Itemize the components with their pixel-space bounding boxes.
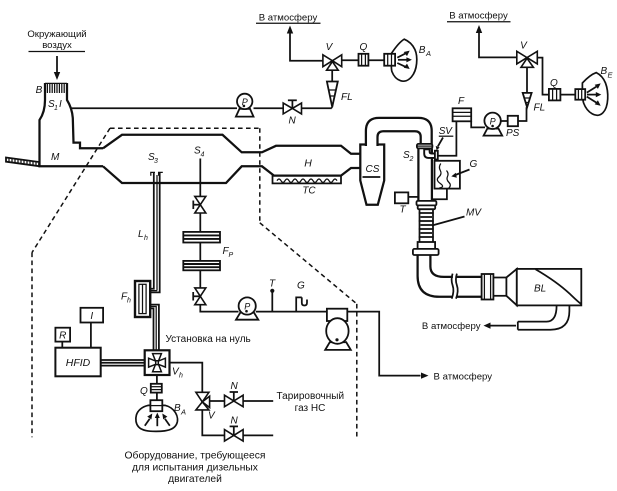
svg-text:BL: BL	[534, 284, 546, 295]
sampling probe S4	[194, 146, 205, 197]
svg-text:h: h	[179, 373, 183, 380]
pump P (sample)	[484, 113, 503, 136]
svg-text:FL: FL	[534, 103, 546, 114]
pressure switch PS	[501, 116, 520, 139]
svg-text:B: B	[601, 66, 608, 77]
line to pump P	[200, 305, 238, 312]
vent line to atmosphere (right)	[447, 11, 517, 58]
U-bend pipe CS to main pipe	[366, 118, 432, 146]
elbow to blower BL	[418, 255, 482, 297]
svg-text:G: G	[470, 159, 478, 170]
svg-text:Окружающий: Окружающий	[27, 29, 86, 40]
svg-text:В атмосферу: В атмосферу	[259, 13, 318, 24]
pump P (background air)	[236, 94, 254, 117]
3-way valve V (background air vent)	[323, 42, 342, 82]
zero line Vh to valve V	[170, 363, 203, 393]
sample line SV to filter F	[438, 121, 457, 156]
3-way valve V (calibration)	[196, 392, 216, 421]
temperature sensor T (particulate line)	[269, 279, 276, 312]
svg-text:N: N	[289, 116, 297, 127]
svg-text:MV: MV	[466, 208, 482, 219]
svg-text:В атмосферу: В атмосферу	[434, 372, 493, 383]
funnel B with hatched inlet	[36, 83, 103, 166]
pipe break symbol	[452, 274, 458, 299]
coupling before BL	[482, 274, 494, 300]
svg-text:B: B	[419, 45, 426, 56]
svg-text:G: G	[297, 281, 305, 292]
svg-text:L: L	[138, 229, 144, 240]
heated triple line HFID to Vh	[101, 360, 145, 366]
flow meter Q (HFID burner air)	[140, 375, 162, 397]
svg-text:N: N	[231, 381, 239, 392]
svg-text:R: R	[59, 331, 66, 342]
line F to pump P	[471, 121, 485, 127]
needle valve N (cal gas 2)	[202, 410, 273, 441]
line V to flow meter Q (right)	[537, 58, 549, 95]
flange S2 on main pipe	[403, 144, 432, 163]
flange above elbow	[413, 249, 439, 255]
svg-text:В атмосферу: В атмосферу	[422, 321, 481, 332]
temperature sensor T (on pipe)	[395, 192, 419, 215]
rotameter FL (sample)	[518, 93, 545, 121]
flexible coupling MV	[418, 208, 483, 249]
label: Окружающий воздух	[27, 29, 86, 52]
heater TC under section H	[273, 176, 342, 197]
heated line Lh	[138, 173, 160, 293]
svg-text:Оборудование, требующееся: Оборудование, требующееся	[125, 450, 266, 462]
svg-text:газ НС: газ НС	[295, 403, 326, 414]
blower BA (burner air) pointing down	[136, 393, 186, 432]
svg-text:P: P	[490, 116, 496, 126]
svg-text:A: A	[425, 49, 431, 58]
rotameter FL (background air)	[327, 82, 353, 109]
svg-text:Q: Q	[360, 42, 368, 53]
svg-text:воздух: воздух	[42, 40, 72, 51]
svg-text:FL: FL	[341, 92, 353, 103]
recorder R	[55, 328, 70, 348]
vent line to atmosphere (middle)	[256, 13, 323, 61]
svg-text:двигателей: двигателей	[168, 474, 222, 485]
vent line to atmosphere (bottom)	[347, 312, 492, 383]
svg-text:B: B	[36, 85, 43, 96]
svg-text:Q: Q	[140, 386, 148, 397]
svg-text:3: 3	[154, 158, 158, 165]
filter FP 2	[183, 246, 233, 270]
flange below S2	[417, 201, 437, 209]
svg-text:F: F	[458, 96, 465, 107]
filter FP 1	[183, 232, 220, 243]
caption: equipment for diesel testing	[125, 450, 266, 486]
sampling probe S3	[148, 152, 163, 176]
svg-text:T: T	[400, 205, 407, 216]
heated filter Fh	[121, 281, 150, 317]
sampling fitting SV	[424, 126, 453, 160]
svg-text:1: 1	[54, 105, 58, 112]
svg-text:Установка на нуль: Установка на нуль	[166, 334, 251, 345]
svg-text:для испытания дизельных: для испытания дизельных	[132, 463, 259, 474]
arrow BL outlet to atmosphere	[422, 321, 516, 332]
heated line Fh to Vh	[150, 305, 159, 351]
main exhaust pipe	[418, 148, 432, 201]
svg-text:P: P	[242, 97, 248, 107]
svg-text:h: h	[127, 298, 131, 305]
flame detector G (on pipe)	[432, 159, 478, 199]
svg-text:h: h	[144, 235, 148, 242]
svg-text:M: M	[51, 152, 60, 163]
svg-text:Q: Q	[550, 78, 558, 89]
blower BA (background air)	[384, 39, 431, 81]
filter F	[453, 96, 472, 121]
cyclone separator CS	[360, 145, 384, 205]
3-way valve V (sample vent)	[517, 41, 538, 93]
flow meter Q (background air)	[342, 42, 385, 66]
svg-text:T: T	[269, 279, 276, 290]
HFID analyzer	[55, 348, 100, 377]
svg-text:2: 2	[409, 156, 414, 163]
arrow: ambient air into funnel B	[54, 56, 60, 80]
gauge G (particulate line)	[296, 281, 307, 312]
svg-text:P: P	[244, 302, 250, 312]
BL outlet pipe	[518, 306, 570, 330]
pipe funnel B to pump P (background air)	[71, 107, 237, 109]
gas meter pump (particulate line)	[325, 309, 351, 350]
svg-text:I: I	[59, 99, 62, 110]
blower BE	[575, 66, 613, 115]
svg-text:CS: CS	[366, 164, 380, 175]
svg-text:В атмосферу: В атмосферу	[449, 11, 508, 22]
inlet cone of BL	[506, 269, 516, 305]
indicator I	[81, 308, 104, 348]
pipe coupling to cone	[493, 278, 506, 296]
svg-text:PS: PS	[506, 128, 520, 139]
svg-text:TC: TC	[302, 186, 316, 197]
heated valve Vh	[145, 350, 183, 379]
valve on S4 line	[193, 196, 206, 213]
line to filters FP	[199, 213, 201, 232]
grating M	[6, 152, 60, 166]
dashed boundary of diesel equipment	[32, 128, 357, 437]
svg-text:4: 4	[201, 152, 205, 159]
svg-text:P: P	[229, 252, 234, 259]
svg-text:Тарировочный: Тарировочный	[277, 391, 345, 402]
svg-text:I: I	[90, 311, 93, 322]
valve below FP	[193, 288, 206, 305]
blower BL	[517, 269, 582, 306]
svg-text:B: B	[174, 403, 181, 414]
svg-text:H: H	[304, 158, 312, 170]
svg-text:HFID: HFID	[66, 357, 91, 369]
pump P (particulate line)	[236, 297, 258, 319]
label: Тарировочный газ НС	[277, 391, 345, 414]
needle valve N (cal gas 1)	[210, 381, 274, 407]
svg-text:N: N	[231, 416, 239, 427]
svg-text:A: A	[180, 408, 186, 417]
valve N (background air)	[254, 100, 332, 126]
dilution tunnel duct	[103, 135, 360, 183]
flow meter Q (right)	[549, 78, 576, 100]
